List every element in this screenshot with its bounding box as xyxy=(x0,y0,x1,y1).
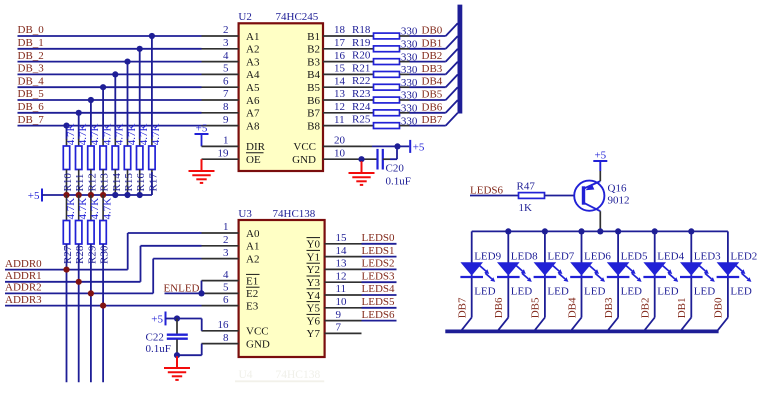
U3 pin 5 E2 xyxy=(202,282,260,301)
svg-text:R17: R17 xyxy=(147,173,159,192)
svg-text:VCC: VCC xyxy=(293,141,316,153)
wire net LEDS2 label xyxy=(362,258,397,270)
svg-text:Y1: Y1 xyxy=(307,251,320,263)
svg-text:U4: U4 xyxy=(239,369,253,381)
wire net DB2 to bus xyxy=(410,49,458,62)
svg-text:8: 8 xyxy=(223,101,229,113)
svg-text:1: 1 xyxy=(223,221,229,233)
svg-text:10: 10 xyxy=(334,147,346,159)
svg-text:LEDS2: LEDS2 xyxy=(362,258,395,270)
svg-text:LED: LED xyxy=(621,285,642,297)
resistor R22 330 xyxy=(352,75,418,90)
U3 pin 3 A2 xyxy=(202,247,260,266)
svg-text:4.7K: 4.7K xyxy=(77,198,89,220)
wire net DB_5 with label xyxy=(18,88,202,139)
U3 pin 15 Y0 xyxy=(307,232,362,251)
resistor R13 4.7K xyxy=(99,123,114,195)
resistor R47 1K xyxy=(517,180,585,214)
svg-text:LED8: LED8 xyxy=(511,250,538,262)
svg-text:4.7K: 4.7K xyxy=(101,198,113,220)
wire net LEDS1 label xyxy=(362,245,397,257)
svg-text:DB7: DB7 xyxy=(422,114,443,126)
LED LED7 with net DB5 xyxy=(530,231,575,330)
wire net DB5 to bus xyxy=(410,87,458,100)
resistor R21 330 xyxy=(352,62,418,77)
svg-text:2: 2 xyxy=(223,24,229,36)
svg-text:DB_7: DB_7 xyxy=(18,114,45,126)
U2 pin 8 A7 xyxy=(202,101,260,120)
op-amp U2 74HC245 chip body xyxy=(238,11,323,171)
svg-text:DB3: DB3 xyxy=(603,297,615,318)
U3 pin 12 Y3 xyxy=(307,270,362,289)
svg-text:5: 5 xyxy=(223,282,229,294)
resistor R25 330 xyxy=(352,114,418,129)
resistor R12 4.7K xyxy=(86,123,101,195)
power +5 at Q16 xyxy=(593,150,607,182)
wire net DB0 to bus xyxy=(410,23,458,36)
svg-text:DB6: DB6 xyxy=(493,297,505,318)
LED LED2 with net DB0 xyxy=(713,231,758,330)
bus DB[0..7] vertical xyxy=(457,5,462,114)
svg-text:R12: R12 xyxy=(86,173,98,191)
svg-text:B1: B1 xyxy=(307,31,320,43)
U2 pin 13 B6 xyxy=(307,88,373,107)
resistor R19 330 xyxy=(352,37,418,52)
U2 pin 12 B7 xyxy=(307,101,373,120)
svg-text:4.7K: 4.7K xyxy=(138,123,150,145)
svg-text:+5: +5 xyxy=(413,141,425,153)
LED LED9 with net DB7 xyxy=(457,231,502,330)
svg-text:R47: R47 xyxy=(517,180,536,192)
wire net DB_6 with label xyxy=(18,101,202,140)
svg-text:DB1: DB1 xyxy=(422,37,443,49)
svg-text:DB4: DB4 xyxy=(422,76,443,88)
svg-text:R18: R18 xyxy=(352,24,371,36)
svg-text:2: 2 xyxy=(223,234,229,246)
svg-text:R23: R23 xyxy=(352,88,371,100)
svg-text:DB_6: DB_6 xyxy=(18,101,45,113)
svg-text:R24: R24 xyxy=(352,101,371,113)
svg-text:19: 19 xyxy=(218,147,230,159)
resistor R16 4.7K xyxy=(135,123,150,195)
wire Q16 collector to LED rail xyxy=(597,211,603,234)
capacitor C20 0.1uF xyxy=(378,146,411,187)
svg-text:13: 13 xyxy=(336,258,348,270)
wire net DB_2 with label xyxy=(18,50,202,140)
svg-text:4.7K: 4.7K xyxy=(65,198,77,220)
svg-text:16: 16 xyxy=(218,319,230,331)
svg-text:4: 4 xyxy=(223,50,229,62)
svg-text:+5: +5 xyxy=(594,150,606,162)
svg-text:DB4: DB4 xyxy=(566,297,578,318)
svg-text:DB2: DB2 xyxy=(422,50,443,62)
svg-text:+5: +5 xyxy=(196,123,208,135)
svg-text:18: 18 xyxy=(334,24,346,36)
resistor R30 4.7K xyxy=(99,195,114,382)
wire net ADDR1 with label xyxy=(5,246,202,285)
wire net DB_1 with label xyxy=(18,37,202,140)
svg-text:6: 6 xyxy=(223,75,229,87)
LED LED8 with net DB6 xyxy=(493,231,538,330)
svg-text:+5: +5 xyxy=(151,314,163,326)
svg-text:A2: A2 xyxy=(246,253,259,265)
wire net LEDS6 label xyxy=(470,184,520,196)
U3 pin 7 Y7 xyxy=(307,322,362,341)
junction dots on +5 rail xyxy=(63,192,142,198)
svg-text:4.7K: 4.7K xyxy=(114,123,126,145)
svg-text:R13: R13 xyxy=(99,173,111,192)
U3 pin 2 A1 xyxy=(202,234,260,253)
svg-text:DB5: DB5 xyxy=(422,89,443,101)
U2 pin 20 VCC wire to +5 xyxy=(293,135,425,154)
U2 pin 2 A1 xyxy=(202,24,260,43)
svg-text:DB5: DB5 xyxy=(530,297,542,318)
svg-text:14: 14 xyxy=(336,245,348,257)
resistor R24 330 xyxy=(352,101,418,116)
svg-text:ADDR1: ADDR1 xyxy=(5,270,42,282)
svg-text:9: 9 xyxy=(223,114,229,126)
svg-text:LED5: LED5 xyxy=(621,250,648,262)
svg-text:DB_0: DB_0 xyxy=(18,24,45,36)
svg-text:B6: B6 xyxy=(307,95,320,107)
svg-text:DB1: DB1 xyxy=(676,298,688,319)
svg-text:LEDS4: LEDS4 xyxy=(362,283,396,295)
svg-text:ADDR2: ADDR2 xyxy=(5,282,42,294)
svg-text:7: 7 xyxy=(223,88,229,100)
svg-text:LED: LED xyxy=(511,285,532,297)
svg-text:Y7: Y7 xyxy=(307,328,321,340)
svg-text:R16: R16 xyxy=(135,173,147,192)
U3 pin 4 E1 xyxy=(202,269,260,288)
svg-text:A6: A6 xyxy=(246,95,260,107)
bus DB[0..7] horizontal xyxy=(445,329,718,333)
wire net DB_7 with label xyxy=(18,114,202,140)
LED LED3 with net DB1 xyxy=(676,231,721,330)
svg-text:4.7K: 4.7K xyxy=(77,123,89,145)
resistor R28 4.7K xyxy=(74,195,89,382)
resistor R11 4.7K xyxy=(74,123,89,195)
svg-text:0.1uF: 0.1uF xyxy=(386,176,411,188)
svg-text:GND: GND xyxy=(246,338,270,350)
svg-text:DB6: DB6 xyxy=(422,101,443,113)
resistor R18 330 xyxy=(352,24,418,39)
svg-text:LED: LED xyxy=(474,285,495,297)
wire net DB1 to bus xyxy=(410,36,458,49)
svg-text:R21: R21 xyxy=(352,62,370,74)
svg-text:ADDR3: ADDR3 xyxy=(5,294,42,306)
svg-text:A1: A1 xyxy=(246,241,259,253)
resistor R10 4.7K xyxy=(62,123,77,195)
svg-text:Y3: Y3 xyxy=(307,277,321,289)
U2 pin 3 A2 xyxy=(202,37,260,56)
resistor R15 4.7K xyxy=(123,123,138,195)
svg-text:DB_1: DB_1 xyxy=(18,37,44,49)
svg-text:B8: B8 xyxy=(307,120,320,132)
svg-text:Q16: Q16 xyxy=(608,182,627,194)
wire net ADDR3 with label xyxy=(5,294,202,309)
svg-text:Y0: Y0 xyxy=(307,239,321,251)
svg-text:DB_3: DB_3 xyxy=(18,63,45,75)
svg-text:LED: LED xyxy=(547,285,568,297)
svg-text:74HC138: 74HC138 xyxy=(273,208,316,220)
U3 pin 10 Y5 xyxy=(307,296,362,315)
wire net DB4 to bus xyxy=(410,75,458,88)
resistor R14 4.7K xyxy=(111,123,126,195)
wire net LEDS5 label xyxy=(362,296,397,308)
svg-text:DIR: DIR xyxy=(246,141,266,153)
svg-text:R28: R28 xyxy=(74,245,86,264)
svg-text:4.7K: 4.7K xyxy=(126,123,138,145)
power +5 at C22 xyxy=(151,312,201,331)
U2 pin 7 A6 xyxy=(202,88,260,107)
svg-text:3: 3 xyxy=(223,37,229,49)
U2 pin 17 B2 xyxy=(307,37,373,56)
U2 pin 4 A3 xyxy=(202,50,260,69)
LED LED4 with net DB2 xyxy=(640,231,685,330)
wire net DB_3 with label xyxy=(18,63,202,140)
svg-text:R29: R29 xyxy=(86,245,98,264)
U3 pin 13 Y2 xyxy=(307,258,362,277)
svg-text:3: 3 xyxy=(223,247,229,259)
U2 pin 18 B1 xyxy=(307,24,373,43)
svg-text:LED: LED xyxy=(730,285,751,297)
svg-text:LEDS6: LEDS6 xyxy=(470,184,504,196)
svg-text:4.7K: 4.7K xyxy=(150,123,162,145)
svg-text:LED: LED xyxy=(584,285,605,297)
svg-text:74HC245: 74HC245 xyxy=(276,11,319,23)
svg-text:E2: E2 xyxy=(246,288,258,300)
wire net DB3 to bus xyxy=(410,62,458,75)
wire LED anode rail xyxy=(472,230,728,232)
svg-text:R14: R14 xyxy=(111,173,123,192)
svg-text:11: 11 xyxy=(336,283,347,295)
capacitor C22 0.1uF xyxy=(146,319,202,359)
svg-text:R11: R11 xyxy=(74,174,86,192)
svg-text:9: 9 xyxy=(336,309,342,321)
U3 pin 9 Y6 xyxy=(307,309,362,328)
U3 pin 6 E3 xyxy=(202,294,259,313)
svg-text:8: 8 xyxy=(223,332,229,344)
op-amp U3 74HC138 chip body xyxy=(238,208,324,357)
U3 pin 11 Y4 xyxy=(307,283,362,302)
svg-text:12: 12 xyxy=(334,101,345,113)
svg-text:16: 16 xyxy=(334,50,346,62)
svg-text:DB0: DB0 xyxy=(713,297,725,318)
svg-text:LEDS3: LEDS3 xyxy=(362,270,396,282)
svg-text:LED9: LED9 xyxy=(474,250,501,262)
svg-text:B4: B4 xyxy=(307,69,320,81)
svg-text:R20: R20 xyxy=(352,50,371,62)
svg-text:15: 15 xyxy=(334,63,346,75)
svg-text:E3: E3 xyxy=(246,300,259,312)
svg-text:R19: R19 xyxy=(352,37,371,49)
svg-text:4.7K: 4.7K xyxy=(89,123,101,145)
svg-text:ADDR0: ADDR0 xyxy=(5,258,42,270)
U2 pin 11 B8 xyxy=(307,114,373,133)
svg-text:B3: B3 xyxy=(307,56,320,68)
ground at U2 OE xyxy=(189,159,215,183)
faint U4 74HC138 chip top (cut off) xyxy=(235,369,324,381)
svg-text:LEDS0: LEDS0 xyxy=(362,232,396,244)
U3 pin 8 GND xyxy=(202,332,270,351)
svg-text:C22: C22 xyxy=(146,332,164,344)
svg-text:Y5: Y5 xyxy=(307,303,321,315)
svg-text:R22: R22 xyxy=(352,75,370,87)
U3 pin 14 Y1 xyxy=(307,245,362,264)
svg-text:9012: 9012 xyxy=(608,195,630,207)
resistor R29 4.7K xyxy=(86,195,101,382)
svg-text:R25: R25 xyxy=(352,114,371,126)
svg-text:DB_4: DB_4 xyxy=(18,75,45,87)
resistor R17 4.7K xyxy=(147,123,162,195)
resistor R27 4.7K xyxy=(62,195,77,382)
svg-text:R27: R27 xyxy=(62,245,74,264)
svg-text:4: 4 xyxy=(223,269,229,281)
svg-text:GND: GND xyxy=(292,154,316,166)
LED LED5 with net DB3 xyxy=(603,231,648,330)
svg-text:4.7K: 4.7K xyxy=(65,123,77,145)
svg-text:LEDS1: LEDS1 xyxy=(362,245,395,257)
wire net LEDS3 label xyxy=(362,270,397,282)
ground at C22 xyxy=(164,356,190,380)
svg-text:17: 17 xyxy=(334,37,346,49)
svg-text:A2: A2 xyxy=(246,44,259,56)
svg-text:R10: R10 xyxy=(62,173,74,192)
svg-text:U2: U2 xyxy=(238,11,251,23)
U2 pin 15 B4 xyxy=(307,63,373,82)
svg-text:LEDS5: LEDS5 xyxy=(362,296,396,308)
U2 pin 14 B5 xyxy=(307,75,373,94)
svg-text:0.1uF: 0.1uF xyxy=(146,343,171,355)
svg-text:LED3: LED3 xyxy=(694,250,721,262)
svg-text:A4: A4 xyxy=(246,69,260,81)
svg-text:20: 20 xyxy=(334,135,346,147)
svg-text:R30: R30 xyxy=(99,245,111,264)
svg-text:A8: A8 xyxy=(246,120,260,132)
svg-text:15: 15 xyxy=(336,232,348,244)
wire net LEDS6 label xyxy=(362,309,397,321)
transistor Q16 9012 PNP xyxy=(574,181,629,212)
svg-text:12: 12 xyxy=(336,270,347,282)
svg-text:DB3: DB3 xyxy=(422,63,443,75)
wire net DB7 to bus xyxy=(410,113,458,126)
svg-text:74HC138: 74HC138 xyxy=(276,369,321,381)
U3 pin 1 A0 xyxy=(202,221,260,240)
svg-text:Y6: Y6 xyxy=(307,315,321,327)
svg-text:OE: OE xyxy=(246,154,261,166)
svg-text:DB_5: DB_5 xyxy=(18,88,45,100)
svg-text:5: 5 xyxy=(223,63,229,75)
U2 pin 9 A8 xyxy=(202,114,260,133)
wire net DB_0 with label xyxy=(18,24,202,139)
svg-text:4.7K: 4.7K xyxy=(101,123,113,145)
svg-text:LEDS6: LEDS6 xyxy=(362,309,396,321)
svg-text:B7: B7 xyxy=(307,108,320,120)
U2 pin 16 B3 xyxy=(307,50,373,69)
svg-text:A0: A0 xyxy=(246,228,260,240)
svg-text:VCC: VCC xyxy=(246,326,269,338)
svg-text:A3: A3 xyxy=(246,56,260,68)
wire net LEDS4 label xyxy=(362,283,397,295)
wire net ADDR2 with label xyxy=(5,259,202,297)
svg-text:6: 6 xyxy=(223,294,229,306)
U2 pin 5 A4 xyxy=(202,63,260,82)
svg-text:Y2: Y2 xyxy=(307,264,320,276)
svg-text:LED7: LED7 xyxy=(547,250,574,262)
svg-text:7: 7 xyxy=(336,322,342,334)
svg-text:A7: A7 xyxy=(246,108,260,120)
svg-text:LED: LED xyxy=(657,285,678,297)
svg-text:1K: 1K xyxy=(519,202,533,214)
ground at U2 GND xyxy=(349,161,375,185)
svg-text:LED: LED xyxy=(694,285,715,297)
wire net ADDR0 with label xyxy=(5,233,202,273)
svg-text:DB2: DB2 xyxy=(640,298,652,319)
svg-text:LED2: LED2 xyxy=(730,250,757,262)
svg-text:11: 11 xyxy=(334,114,345,126)
U2 pin 6 A5 xyxy=(202,75,260,94)
resistor R23 330 xyxy=(352,88,418,103)
svg-text:DB_2: DB_2 xyxy=(18,50,44,62)
svg-text:E1: E1 xyxy=(246,275,258,287)
svg-text:A5: A5 xyxy=(246,82,260,94)
svg-text:A1: A1 xyxy=(246,31,259,43)
svg-text:1: 1 xyxy=(223,135,229,147)
junction dots on LED rail xyxy=(505,228,694,234)
svg-text:LED4: LED4 xyxy=(657,250,684,262)
svg-text:B5: B5 xyxy=(307,82,320,94)
svg-text:B2: B2 xyxy=(307,44,320,56)
svg-text:+5: +5 xyxy=(28,190,40,202)
svg-text:R15: R15 xyxy=(123,173,135,192)
U2 pin 10 GND wire xyxy=(292,147,377,166)
svg-text:4.7K: 4.7K xyxy=(89,198,101,220)
svg-text:U3: U3 xyxy=(238,208,252,220)
U2 pin 19 OE with ground xyxy=(202,147,261,166)
svg-text:LED6: LED6 xyxy=(584,250,611,262)
svg-text:DB0: DB0 xyxy=(422,25,443,37)
svg-text:DB7: DB7 xyxy=(457,297,469,318)
power +5 rail xyxy=(28,172,152,202)
svg-text:C20: C20 xyxy=(386,163,405,175)
wire net DB_4 with label xyxy=(18,75,202,139)
svg-text:14: 14 xyxy=(334,75,346,87)
wire net LEDS0 label xyxy=(362,232,397,244)
svg-text:13: 13 xyxy=(334,88,346,100)
U2 pin 1 DIR with +5 xyxy=(195,123,266,154)
svg-text:Y4: Y4 xyxy=(307,290,321,302)
resistor R20 330 xyxy=(352,50,418,65)
wire net ENLED xyxy=(163,281,204,297)
wire net DB6 to bus xyxy=(410,100,458,113)
LED LED6 with net DB4 xyxy=(566,231,611,330)
U3 pin 16 VCC xyxy=(202,319,269,338)
svg-text:10: 10 xyxy=(336,296,348,308)
